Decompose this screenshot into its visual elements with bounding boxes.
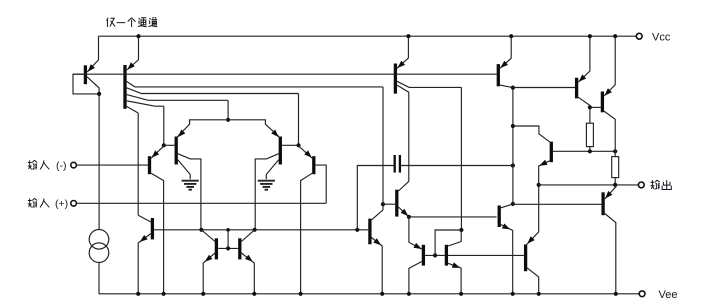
transistor Q10	[370, 210, 383, 294]
node compensation tap junction	[355, 228, 359, 232]
node Q7 emitter on Vee rail	[136, 292, 140, 296]
node T2 collector junction	[511, 86, 515, 90]
node Q21 emitter on Vee rail	[614, 292, 618, 296]
wire mirror top line	[154, 229, 368, 231]
svg-text:Vcc: Vcc	[652, 32, 671, 44]
label IN- text	[28, 160, 67, 172]
transistor Q21	[603, 185, 616, 294]
node Q8 collector junction	[199, 228, 203, 232]
wire Q4 base	[282, 144, 299, 146]
transistor Q13	[446, 230, 461, 294]
wire Q1 base-collector tie	[73, 74, 98, 94]
resistor R2	[612, 151, 619, 185]
terminal OUT	[638, 182, 644, 188]
node Q18 collector on Vee rail	[537, 292, 541, 296]
transistor Q5	[150, 146, 164, 294]
node Q9 emitter on Vee rail	[252, 292, 256, 296]
node Q15 emitter on Vcc rail	[509, 34, 513, 38]
wire right mirror bases line	[425, 254, 524, 256]
wire Q2 collector line L3	[127, 88, 299, 94]
wire L2 drop to Q10	[382, 87, 384, 210]
label Vee text	[659, 289, 678, 301]
transistor Q20	[602, 36, 615, 151]
node left input emitter node	[162, 143, 166, 147]
node Q12 collector on Vee rail	[407, 292, 411, 296]
terminal Vee	[639, 291, 645, 297]
transistor Q19	[577, 36, 590, 107]
wire C1 right lead	[401, 165, 513, 167]
node Q6 collector on Vee rail	[299, 292, 303, 296]
resistor R1	[586, 107, 593, 151]
wire Q19 base	[513, 87, 575, 89]
node right mirror bases node	[433, 253, 437, 257]
node Q20 base junction	[588, 105, 592, 109]
wire Q17 base	[553, 150, 615, 152]
transistor Q18	[526, 244, 539, 293]
node output junction	[613, 183, 617, 187]
wire inverting input	[77, 164, 149, 166]
node Q14 collector junction	[511, 202, 515, 206]
wire tail to Q3 emitter	[178, 120, 229, 137]
transistor Q6	[299, 146, 314, 294]
node Q10 emitter on Vee rail	[380, 292, 384, 296]
node R1 bottom junction	[588, 149, 592, 153]
node Q2 emitter on Vcc rail	[136, 34, 140, 38]
transistor Q15	[498, 36, 513, 87]
wire mirror bases tie	[218, 247, 238, 249]
wire Q3 base	[164, 144, 175, 146]
node Q11 base junction	[381, 202, 385, 206]
transistor Q11	[397, 181, 409, 216]
svg-text:(+): (+)	[55, 198, 68, 210]
transistor Q16	[395, 36, 461, 181]
wire Vcc top rail	[99, 35, 637, 37]
node Q1 collector junction	[97, 92, 101, 96]
node Q19 emitter on Vcc rail	[588, 34, 592, 38]
wire output line	[539, 184, 639, 186]
transistor Q9	[240, 230, 255, 294]
ground GND2	[258, 181, 275, 190]
capacitor C1	[395, 155, 400, 173]
wire Q2 collector line L4	[127, 95, 229, 101]
svg-text:(-): (-)	[56, 160, 67, 172]
wire L3 drop	[298, 94, 300, 146]
node Q5 collector on Vee rail	[162, 292, 166, 296]
wire non-inverting input	[77, 202, 327, 204]
node Q20 emitter on Vcc rail	[613, 34, 617, 38]
label only-one-channel	[106, 17, 157, 27]
transistor Q14	[499, 204, 513, 294]
label IN+ text	[28, 198, 68, 210]
wire Q20 base	[590, 106, 601, 108]
transistor Q2	[125, 36, 139, 109]
terminal IN-	[71, 162, 77, 168]
terminal IN+	[71, 201, 77, 207]
wire bias column left	[98, 94, 100, 230]
transistor Q8	[201, 230, 216, 294]
wire Vee bottom rail	[99, 293, 640, 295]
node mirror bases tap	[226, 228, 230, 232]
wire Q21 base	[513, 203, 602, 205]
node mirror bases node	[226, 246, 230, 250]
node Q13 emitter on Vee rail	[459, 292, 463, 296]
node right input emitter node	[296, 143, 300, 147]
label Vcc text	[652, 32, 671, 44]
wire Q2 collector line L2	[127, 81, 383, 87]
wire Q16 collector drop to mirror	[460, 87, 462, 230]
wire mirror bases to top line	[227, 230, 229, 249]
wire L4 drop to bias node	[227, 100, 229, 120]
wire current source to Vee rail	[98, 263, 100, 294]
transistor Q4	[255, 130, 280, 230]
transistor Q1	[85, 36, 99, 94]
node Q14 emitter on Vee rail	[511, 292, 515, 296]
wire Q6 base elbow	[316, 165, 327, 203]
wire right mirror bases elbow	[435, 230, 461, 255]
wire Q11 emitter to Q14 base	[409, 216, 497, 218]
terminal Vcc	[636, 33, 642, 39]
wire Q11 base	[383, 203, 395, 205]
ground GND1	[182, 181, 199, 190]
node output drive junction	[537, 183, 541, 187]
svg-text:Vee: Vee	[659, 289, 678, 301]
wire L5 drop	[163, 106, 165, 145]
node Q11 emitter junction	[407, 215, 411, 219]
transistor Q12	[409, 217, 424, 294]
wire base bias line	[73, 73, 497, 75]
transistor Q3	[176, 130, 201, 230]
current source I1	[89, 230, 109, 263]
transistor Q7	[138, 215, 152, 293]
node Q8 emitter on Vee rail	[201, 292, 205, 296]
wire tail to Q4 emitter	[228, 120, 279, 137]
node Q13 collector junction	[459, 228, 463, 232]
transistor Q17	[513, 126, 551, 244]
node tail bias node	[226, 118, 230, 122]
wire gain node column	[512, 88, 514, 204]
label OUT text	[651, 180, 672, 189]
wire L6 drop to Q7 collector	[137, 113, 139, 215]
wire Q2 collector line L6	[127, 106, 139, 113]
node Q16 emitter on Vcc rail	[406, 34, 410, 38]
node C1 right junction	[511, 163, 515, 167]
node Miller tap junction	[511, 124, 515, 128]
wire C1 left lead	[357, 166, 393, 230]
node R2 top junction	[613, 149, 617, 153]
wire Q2 collector line L5	[127, 101, 164, 106]
node Q9 collector junction	[253, 228, 257, 232]
